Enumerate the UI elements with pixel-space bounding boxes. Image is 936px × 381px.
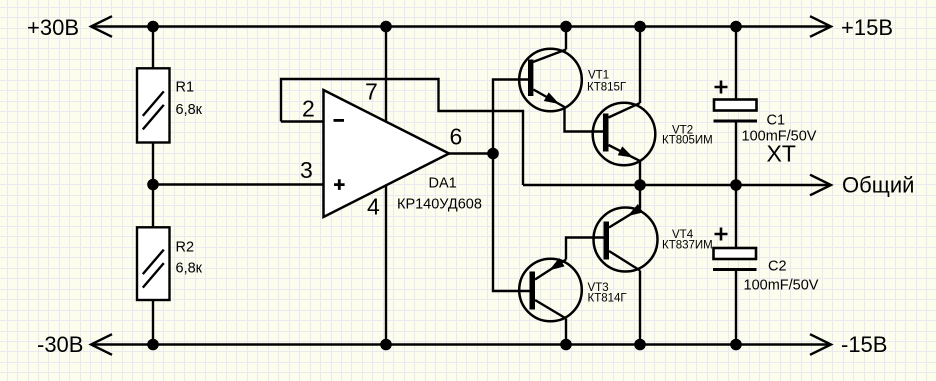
wire -30V bottom rail (92, 343, 829, 345)
wire +30V top rail (92, 25, 829, 27)
junction op-amp output (487, 148, 499, 160)
wire middle left (node A to op-amp pin 3) (153, 183, 324, 185)
arrow +30V left (91, 16, 112, 37)
capacitor C1 (714, 81, 758, 122)
junction bottom rail C2 (730, 339, 742, 351)
wire VT1 emitter to VT2 base (565, 107, 604, 132)
svg-text:6,8к: 6,8к (176, 102, 203, 118)
wire VT2 emitter to common (639, 161, 641, 185)
svg-text:7: 7 (365, 79, 378, 105)
wire VT4 emitter to common (639, 185, 641, 209)
svg-text:КТ814Г: КТ814Г (588, 293, 628, 305)
junction bottom rail pin4 (380, 339, 392, 351)
svg-text:DA1: DA1 (429, 176, 457, 192)
svg-text:6: 6 (450, 124, 463, 150)
svg-text:+30В: +30В (27, 15, 79, 40)
svg-text:VT1: VT1 (588, 70, 609, 82)
wire VT2 collector (639, 27, 641, 104)
wire C1 bottom lead (735, 122, 737, 186)
transistor VT3 (519, 259, 582, 322)
transistor VT4 (594, 205, 658, 272)
resistor R2 (137, 227, 170, 300)
resistor R1 (137, 68, 170, 142)
wire R1 R2 branch vertical (152, 27, 154, 345)
svg-text:КТ837ИМ: КТ837ИМ (662, 240, 713, 252)
wire C1 top lead (735, 27, 737, 101)
arrow common right (810, 175, 831, 196)
svg-text:КР140УД608: КР140УД608 (397, 197, 482, 213)
arrow -15V right (810, 334, 831, 355)
svg-text:Общий: Общий (842, 173, 914, 198)
op-amp DA1 (324, 90, 450, 217)
arrow +15V right (810, 16, 831, 37)
wire VT1 collector (565, 27, 567, 50)
junction top rail R1 (147, 21, 159, 33)
svg-text:-15В: -15В (841, 332, 887, 357)
wire op-amp pin2 input (281, 120, 324, 122)
svg-text:-30В: -30В (37, 332, 83, 357)
junction top rail VT1 collector (560, 21, 572, 33)
svg-text:2: 2 (302, 96, 315, 122)
wire output to VT3 base (493, 154, 530, 292)
svg-text:XT: XT (767, 141, 796, 167)
junction common C1/C2 (730, 179, 742, 191)
wire C2 bottom lead (735, 270, 737, 345)
svg-text:R1: R1 (176, 80, 195, 96)
junction top rail pin7 (380, 21, 392, 33)
transistor VT1 (519, 49, 582, 112)
transistor VT2 (593, 103, 656, 166)
wire output to VT1 base (493, 80, 529, 154)
wire feedback loop pin2 to common (281, 79, 523, 185)
wire VT3 collector (565, 319, 567, 345)
svg-text:3: 3 (300, 157, 313, 183)
junction bottom rail R2 (147, 339, 159, 351)
wire VT3 emitter to VT4 base (566, 238, 604, 260)
junction bottom rail VT3 collector (560, 339, 572, 351)
junction bottom rail VT4 collector (634, 339, 646, 351)
svg-text:R2: R2 (176, 240, 195, 256)
svg-text:4: 4 (367, 194, 380, 220)
wire op-amp output pin6 (449, 152, 493, 154)
wire C2 top lead (735, 185, 737, 248)
junction node A (R1/R2 divider) (147, 179, 159, 191)
junction common emitters (634, 179, 646, 191)
svg-text:6,8к: 6,8к (176, 261, 203, 277)
arrow -30V left (91, 334, 112, 355)
capacitor C2 (713, 228, 757, 270)
svg-text:C2: C2 (768, 259, 787, 275)
junction top rail C1 (730, 21, 742, 33)
wire op-amp pin7/pin4 supply vertical (385, 27, 387, 345)
svg-text:100mF/50V: 100mF/50V (744, 278, 819, 294)
svg-text:КТ805ИМ: КТ805ИМ (662, 135, 713, 147)
svg-text:КТ815Г: КТ815Г (587, 82, 627, 94)
wire common rail right (523, 184, 829, 186)
svg-text:C1: C1 (767, 113, 786, 129)
svg-text:+15В: +15В (841, 15, 893, 40)
wire VT4 collector (639, 271, 641, 345)
junction top rail VT2 collector (634, 21, 646, 33)
